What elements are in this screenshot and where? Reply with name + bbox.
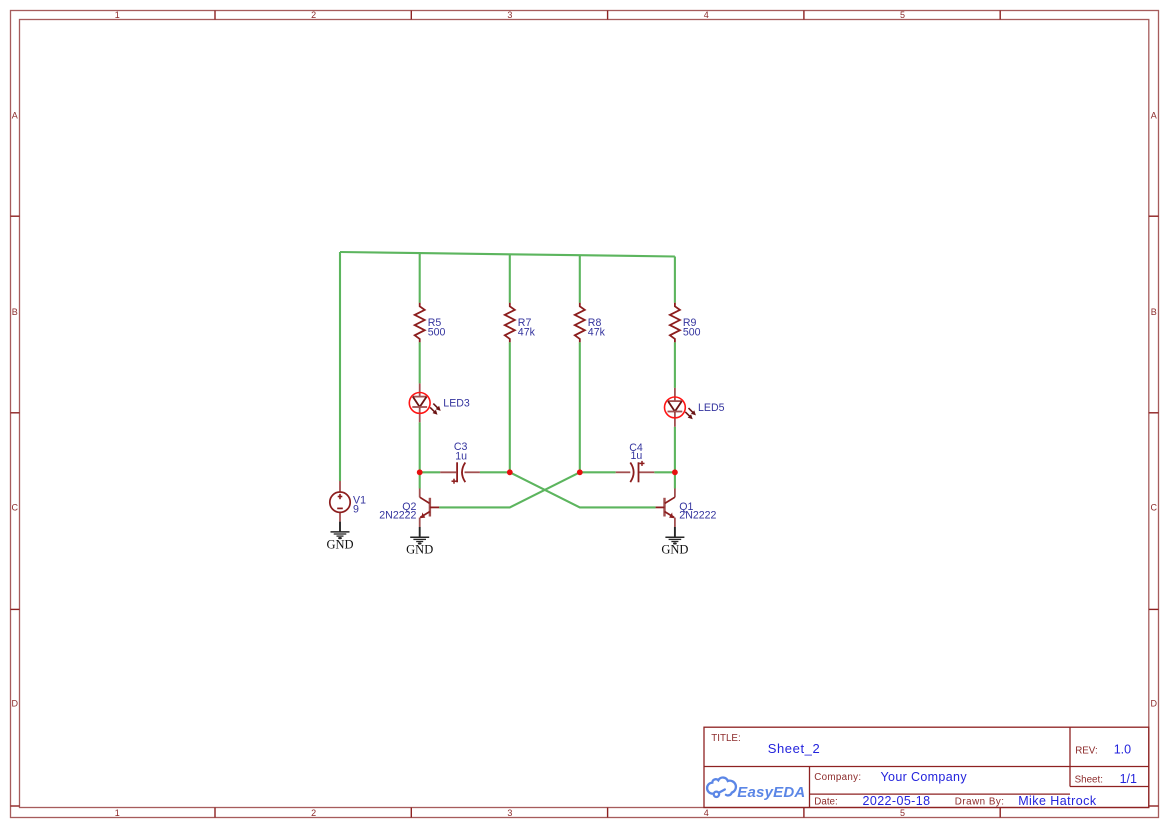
svg-text:9: 9 [353,503,359,515]
junction node R7 [507,469,513,475]
wire node to C4 [580,471,616,473]
wire R9 to LED5 [674,342,676,388]
wire LED5 to node [674,427,676,473]
wire node to Q2 collector [419,472,421,488]
svg-text:2: 2 [311,10,316,20]
ground GND Q1 [661,527,688,557]
svg-text:REV:: REV: [1075,745,1098,756]
wire R8 to node [579,342,581,472]
svg-text:D: D [1151,699,1158,709]
svg-text:2: 2 [311,808,316,818]
svg-text:GND: GND [406,543,433,557]
wire VCC top rail [340,252,675,257]
svg-text:1u: 1u [631,450,643,462]
svg-text:1: 1 [115,10,120,20]
svg-text:A: A [12,111,18,121]
svg-text:1.0: 1.0 [1114,743,1131,757]
svg-text:5: 5 [900,808,905,818]
transistor Q2 2N2222 [419,489,439,528]
junction node R8 [577,469,583,475]
svg-text:GND: GND [326,537,353,551]
capacitor C4 [616,461,655,482]
wire rail to R5 [419,253,421,303]
svg-text:EasyEDA: EasyEDA [737,784,805,801]
svg-text:3: 3 [507,808,512,818]
svg-text:2N2222: 2N2222 [679,510,716,522]
svg-text:C: C [12,503,19,513]
transistor Q1 2N2222 [656,489,676,528]
resistor R7 [505,303,515,342]
wire rail to R9 [674,256,676,302]
svg-text:Mike Hatrock: Mike Hatrock [1018,794,1097,808]
resistor R5 [415,303,425,342]
svg-text:Sheet_2: Sheet_2 [768,741,821,756]
svg-text:3: 3 [507,10,512,20]
svg-text:500: 500 [683,327,701,339]
wire V1 to rail [339,252,341,481]
svg-text:Sheet:: Sheet: [1075,775,1103,786]
svg-text:B: B [12,307,18,317]
wire C3 to node [480,471,510,473]
svg-text:1/1: 1/1 [1120,772,1137,786]
ground GND V1 [326,522,353,552]
wire R7 node to Q1 base (cross) [510,472,656,507]
svg-text:LED5: LED5 [698,402,725,414]
svg-text:1: 1 [115,808,120,818]
resistor R8 [575,303,585,342]
svg-text:GND: GND [661,543,688,557]
svg-text:2022-05-18: 2022-05-18 [863,794,931,808]
voltage source V1 [330,481,350,522]
svg-text:2N2222: 2N2222 [379,510,416,522]
svg-text:4: 4 [704,10,709,20]
wire LED3 to node [419,422,421,472]
svg-text:Drawn By:: Drawn By: [955,797,1005,808]
svg-text:47k: 47k [588,327,606,339]
svg-text:4: 4 [704,808,709,818]
svg-text:500: 500 [428,327,446,339]
svg-text:Company:: Company: [814,772,861,783]
svg-text:5: 5 [900,10,905,20]
resistor R9 [670,303,680,342]
svg-text:B: B [1151,307,1157,317]
wire rail to R7 [509,254,511,303]
ground GND Q2 [406,527,433,557]
capacitor C3 [440,462,480,483]
svg-text:TITLE:: TITLE: [711,733,740,744]
LED LED3 [409,383,440,422]
junction node R5/C3 [417,469,423,475]
svg-text:47k: 47k [518,327,536,339]
wire node to C3 [420,471,441,473]
LED LED5 [665,388,696,427]
svg-text:Date:: Date: [814,797,837,808]
wire C4 to node [654,471,675,473]
svg-text:1u: 1u [455,450,467,462]
wire R7 to node [509,342,511,472]
svg-text:A: A [1151,111,1157,121]
wire R5 to LED3 [419,342,421,383]
wire Q2 base to R8 node (cross) [439,472,580,507]
svg-text:D: D [12,699,19,709]
svg-text:Your Company: Your Company [881,770,968,784]
wire rail to R8 [579,255,581,303]
svg-text:LED3: LED3 [443,397,470,409]
svg-text:C: C [1151,503,1158,513]
wire node to Q1 collector [674,472,676,488]
junction node R9/C4 [672,469,678,475]
